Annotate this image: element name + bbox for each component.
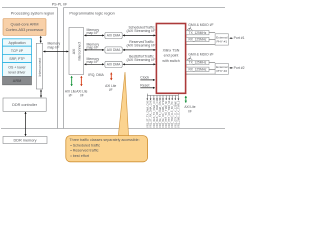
svg-text:map I/F: map I/F [87, 60, 99, 64]
callout tail [118, 72, 128, 137]
svg-text:TCP I/P: TCP I/P [11, 49, 24, 53]
wire red AXI Lite under DMA3 [110, 73, 112, 80]
svg-text:SRP, PTP: SRP, PTP [9, 57, 25, 61]
svg-text:with switch: with switch [162, 59, 179, 63]
svg-text:IRQ_2MS_CLK_TMR_0: IRQ_2MS_CLK_TMR_0 [177, 100, 180, 127]
External PHY #2 box [215, 64, 228, 75]
svg-text:PS-PL I/F: PS-PL I/F [52, 3, 68, 7]
svg-text:• best effort: • best effort [70, 154, 89, 158]
svg-text:AXI Lite: AXI Lite [184, 105, 195, 109]
svg-text:I/F: I/F [188, 109, 192, 113]
software stack: SRP, PTP [3, 54, 32, 62]
ARM hardware box [3, 76, 32, 84]
wire reset into TSN box [140, 87, 155, 89]
svg-text:(AXI Streaming I/F): (AXI Streaming I/F) [127, 29, 157, 33]
DDR controller box [3, 98, 46, 111]
wire DDR controller to DDR memory [25, 112, 27, 136]
svg-text:level driver: level driver [9, 70, 27, 74]
svg-text:I/F: I/F [69, 93, 73, 97]
wire TX #1 [186, 32, 215, 34]
wire TX #2 [186, 62, 215, 64]
pin labels (rotated) [146, 100, 180, 128]
svg-text:RX_125MHz: RX_125MHz [188, 38, 206, 42]
svg-text:Xilinx TSN: Xilinx TSN [163, 48, 180, 52]
svg-text:Port #2: Port #2 [234, 66, 245, 70]
RX_125MHz box #1 [186, 37, 209, 41]
PS region frame [2, 8, 58, 129]
svg-text:(AXI Streaming I/F): (AXI Streaming I/F) [127, 44, 157, 48]
callout bubble [66, 136, 148, 162]
svg-text:PHY #2: PHY #2 [216, 69, 227, 73]
wire AXI DMA 1 to TSN box (scheduled traffic) [123, 34, 155, 36]
wire green AXI Lite right of TSN box [185, 96, 187, 103]
svg-text:RX_125MHz: RX_125MHz [188, 68, 206, 72]
TX_125MHz box #1 [186, 31, 209, 35]
wire green AXI Lite under interconnect [71, 76, 73, 86]
TX_125MHz box #2 [186, 60, 209, 64]
svg-text:GMII & MDIO I/F: GMII & MDIO I/F [188, 53, 213, 57]
wire PS interconnect to AXI interconnect (memory map) [43, 51, 68, 53]
wire RX #2 [186, 68, 215, 70]
wire processor to interconnect [40, 36, 42, 42]
svg-text:AXI DMA: AXI DMA [107, 34, 121, 38]
wire clock into TSN box [140, 79, 155, 81]
wire MDIO #2 [186, 73, 215, 75]
svg-text:map I/F: map I/F [87, 46, 99, 50]
svg-text:PHY #1: PHY #1 [216, 39, 227, 43]
svg-text:Interconnect: Interconnect [38, 58, 42, 77]
AXI DMA box 3 [105, 61, 122, 67]
svg-text:Port #1: Port #1 [234, 36, 245, 40]
callout text [69, 138, 139, 158]
wire AXI interconnect to AXI DMA 1 [84, 34, 104, 36]
PL region frame [64, 8, 226, 129]
AXI DMA box 2 [105, 47, 122, 53]
svg-text:• Reserved traffic: • Reserved traffic [70, 149, 98, 153]
bus slash #2 [187, 58, 193, 60]
svg-text:Cortex-A53 processor: Cortex-A53 processor [6, 27, 45, 32]
svg-text:DDR controller: DDR controller [12, 103, 38, 107]
svg-text:AXI DMA: AXI DMA [107, 48, 121, 52]
svg-text:AXI: AXI [72, 49, 76, 55]
wire AXI DMA 2 to TSN box (reserved traffic) [123, 49, 155, 51]
wire RX #1 [186, 39, 215, 41]
wire red AXI Lite under interconnect [80, 76, 82, 86]
svg-text:TX_125MHz: TX_125MHz [189, 31, 207, 35]
wire AXI interconnect to AXI DMA 2 [84, 49, 104, 51]
svg-text:map I/F: map I/F [87, 31, 99, 35]
svg-text:Reset: Reset [140, 83, 149, 87]
GMII group 2 [186, 53, 245, 75]
svg-text:ARM: ARM [13, 79, 22, 83]
svg-text:Three traffic classes separate: Three traffic classes separately accessi… [69, 138, 139, 142]
svg-text:AXI DMA: AXI DMA [107, 63, 121, 67]
svg-text:Programmable logic region: Programmable logic region [69, 11, 114, 15]
GMII group 1 [186, 23, 245, 45]
svg-text:I/F: I/F [109, 88, 113, 92]
svg-text:(AXI Streaming I/F): (AXI Streaming I/F) [127, 58, 157, 62]
pins below TSN box [147, 94, 178, 100]
External PHY #1 box [215, 34, 228, 45]
bottom border line [1, 128, 225, 130]
TSN switch box [156, 24, 185, 94]
bus slash #1 [187, 28, 193, 30]
software stack: TCP I/P [3, 46, 32, 54]
svg-text:GMII & MDIO I/F: GMII & MDIO I/F [188, 23, 213, 27]
AXI DMA box 1 [105, 32, 122, 38]
wire MDIO #1 [186, 43, 215, 45]
svg-text:Clock: Clock [140, 75, 149, 79]
svg-text:DDR memory: DDR memory [14, 138, 37, 142]
wire interconnect to DDR controller [40, 90, 42, 98]
svg-text:Processing system region: Processing system region [11, 11, 54, 15]
processor box Quad-core ARM Cortex-A53 [3, 19, 46, 36]
software stack: OS + lower level driver [3, 63, 32, 77]
wire AXI interconnect to AXI DMA 3 [84, 63, 104, 65]
wire AXI DMA 3 to TSN box (best effort traffic) [123, 63, 155, 65]
PS interconnect box [36, 43, 42, 89]
svg-text:OS + lower: OS + lower [8, 66, 26, 70]
svg-text:map I/F: map I/F [48, 45, 60, 49]
svg-text:end point: end point [164, 54, 179, 58]
RX_125MHz box #2 [186, 67, 209, 71]
svg-text:TX_125MHz: TX_125MHz [189, 61, 207, 65]
svg-text:Quad-core ARM: Quad-core ARM [11, 22, 39, 27]
svg-text:• Scheduled traffic: • Scheduled traffic [70, 144, 100, 148]
pin comb bus line [147, 94, 178, 96]
wire PHY1 to port [230, 37, 233, 39]
AXI interconnect box [69, 28, 84, 75]
svg-text:I/F: I/F [80, 93, 84, 97]
svg-text:Application: Application [8, 41, 25, 45]
DDR memory box [3, 137, 47, 144]
svg-text:IRQ, DMA: IRQ, DMA [88, 73, 104, 77]
wire PHY2 to port [230, 67, 233, 69]
svg-text:interconnect: interconnect [78, 42, 82, 61]
software stack: Application [3, 39, 32, 46]
